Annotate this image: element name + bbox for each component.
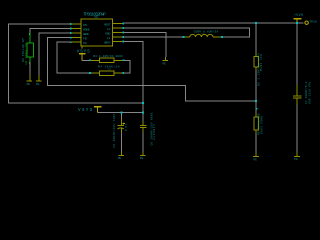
wire VSYS rail bottom [97, 112, 143, 114]
IC U1 right pin stubs [113, 24, 123, 42]
svg-text:PE: PE [140, 157, 144, 160]
junction dots cyan [121, 22, 299, 114]
testpoint TP1 [305, 19, 317, 24]
power VSYS under IC [77, 50, 90, 61]
inductor L1 label [194, 29, 219, 35]
svg-text:PE: PE [294, 158, 298, 161]
resistor R2 pin dots green [29, 33, 31, 63]
IC U1 title text TPS61032PWP [83, 12, 106, 18]
wire VSYS stem to R3 [82, 59, 90, 61]
resistor R5 vertical label [256, 53, 263, 86]
wire +5V cap drop [296, 23, 298, 152]
ground B below L3 wire [36, 75, 42, 81]
wire net L3: pin3 to ground [39, 33, 71, 75]
svg-text:TP18: TP18 [309, 19, 317, 23]
resistor R3 body [90, 58, 124, 63]
capacitor C6 ceramic input cap [140, 113, 147, 153]
ground C6 bottom [140, 152, 146, 155]
inductor L1 coil [184, 34, 222, 37]
wire net FB: pin4 loop to divider node [48, 38, 257, 101]
svg-text:PG: PG [83, 41, 87, 45]
capacitor C5 vertical labels [112, 113, 128, 147]
pin end dots cyan left IC [70, 23, 72, 43]
svg-text:R2 PULLUP 1M: R2 PULLUP 1M [22, 38, 25, 62]
capacitor C7 output cap [293, 85, 302, 105]
resistor R6 lower divider body [254, 113, 259, 134]
ground D on GND pin net [163, 57, 169, 61]
inductor L1 pin dots [183, 36, 223, 38]
resistor R2 green body [27, 34, 33, 63]
svg-text:R3 1.40M/1% 0603: R3 1.40M/1% 0603 [93, 54, 123, 58]
wire coil feed: pin L1 right to coil left end [124, 36, 184, 38]
svg-text:VSYS: VSYS [78, 108, 93, 113]
svg-text:PE: PE [253, 158, 257, 161]
capacitor C7 vertical label [304, 81, 311, 104]
svg-text:CERAMIC: CERAMIC [153, 124, 156, 140]
resistor R2 vertical label [22, 38, 28, 65]
wire net L2: pin2 to resistor R2 top [30, 29, 71, 35]
svg-text:1M 0603 5%: 1M 0603 5% [25, 43, 28, 65]
capacitor C5 polarized input cap [118, 113, 126, 153]
svg-text:L2: L2 [107, 27, 111, 31]
wire R3 right to R4 right U loop [124, 60, 130, 73]
wire net LBI: pin5 to resistor R4 left [57, 42, 90, 73]
svg-text:PE: PE [36, 83, 40, 86]
capacitor C6 vertical label [149, 112, 156, 145]
svg-text:MINI CFG: MINI CFG [260, 54, 263, 71]
wire divider vertical VOUT to GND [255, 23, 257, 152]
pin end dots cyan right IC [122, 23, 124, 43]
svg-text:GND: GND [105, 32, 110, 36]
wire VOUT top: pin VOUT to +5V and TP [124, 22, 304, 24]
wire VBAT right: pin VBAT down to VSYS rail [124, 42, 143, 113]
svg-text:ON: ON [83, 23, 87, 27]
pin end dots R3 R4 [89, 60, 124, 74]
ground F below C7 [294, 152, 300, 156]
svg-text:MODE: MODE [83, 28, 90, 32]
svg-text:TC8: TC8 [107, 67, 112, 70]
resistor R4 body [90, 71, 123, 76]
power +5V top right [294, 13, 303, 23]
svg-text:C5 150UF/10V TANT: C5 150UF/10V TANT [112, 113, 116, 147]
svg-text:X5R 1210 POL: X5R 1210 POL [308, 81, 311, 104]
resistor R4 label [98, 64, 120, 70]
wire GND stub: pin GND right to ground D [124, 33, 166, 58]
svg-text:VBAT: VBAT [104, 41, 111, 45]
svg-text:FB: FB [83, 37, 87, 41]
IC U1 left pin stubs [71, 24, 81, 42]
resistor R5 upper divider body [254, 53, 259, 72]
wire SW return: pin L2 right loop to coil right end [124, 28, 250, 37]
svg-text:PE: PE [27, 83, 31, 86]
svg-text:L1: L1 [107, 36, 111, 40]
ground C5 bottom [119, 152, 125, 155]
IC U1 left pin labels [83, 23, 90, 45]
resistor R6 vertical label [257, 113, 264, 135]
IC U1 right pin labels [104, 23, 111, 45]
wire net L1 loop: pin1 left around to bottom [9, 24, 144, 103]
svg-text:PE: PE [162, 63, 166, 66]
svg-text:0603 FDBK: 0603 FDBK [261, 116, 264, 134]
svg-text:CDRH 6.8UH/3A: CDRH 6.8UH/3A [194, 29, 219, 33]
resistor R6 top pin dot [256, 108, 258, 110]
svg-text:PE: PE [118, 157, 122, 160]
ground A below R2 [26, 63, 32, 82]
svg-text:+5V0: +5V0 [294, 13, 303, 17]
IC U1 bottom pin stub [81, 46, 83, 49]
ground E below divider [253, 152, 259, 156]
svg-text:VOUT: VOUT [104, 23, 111, 27]
power VSYS bottom [78, 107, 101, 113]
svg-text:AGND: AGND [83, 32, 89, 36]
svg-text:POL: POL [125, 123, 128, 131]
op IC U1 TPS61032 body [81, 19, 113, 46]
svg-text:U12: U12 [94, 16, 98, 19]
